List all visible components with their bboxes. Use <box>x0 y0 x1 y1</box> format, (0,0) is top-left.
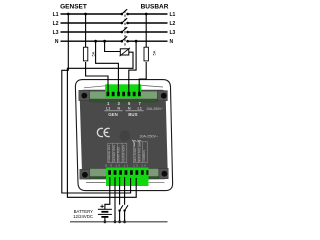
mains line L3 right segment <box>128 31 168 33</box>
svg-text:L1: L1 <box>137 106 141 110</box>
top-right screw <box>161 93 167 99</box>
svg-text:10A-250V~: 10A-250V~ <box>139 135 159 139</box>
svg-text:12/24VDC: 12/24VDC <box>73 214 93 219</box>
mains line L2 left segment <box>61 22 122 24</box>
flange inner lip hairline bottom <box>86 182 165 184</box>
fuse F1 <box>83 47 87 61</box>
input switch S2 contact <box>123 209 125 211</box>
svg-text:N: N <box>170 39 174 45</box>
mains line N right segment <box>128 40 168 42</box>
contactor K1 pole L2 contacts <box>121 22 124 25</box>
node: GEN L1 tap to changeover feed <box>67 13 70 16</box>
input switch S2 wire upper <box>124 177 126 205</box>
bottom green terminal block <box>106 168 149 187</box>
right terminal label grid <box>134 142 148 163</box>
contactor K1 pole L1 contacts <box>121 13 124 16</box>
svg-text:MAINS FAIL: MAINS FAIL <box>137 147 141 162</box>
bottom-right screw <box>162 171 168 177</box>
right grid vertical micro-text <box>133 147 146 162</box>
mains line L1 left segment <box>61 13 122 15</box>
contactor K1 pole L2 blade <box>122 18 127 23</box>
contactor K1 pole L3 contacts <box>121 31 124 34</box>
svg-text:5A: 5A <box>91 51 96 56</box>
ground bus line <box>70 221 168 223</box>
svg-text:L2: L2 <box>53 21 59 27</box>
BUS group bracket <box>125 110 143 112</box>
svg-text:ALARM HORN: ALARM HORN <box>121 145 125 162</box>
svg-text:BUSBAR: BUSBAR <box>141 4 169 11</box>
bottom-left screw pad <box>80 169 90 179</box>
contactor K1 mechanical link (dashed) <box>124 11 126 48</box>
controller module U1 (ATS controller) <box>75 80 172 191</box>
emblem circle <box>120 130 131 141</box>
input switch S2 blade <box>125 205 128 210</box>
flange inner lip hairline top <box>84 85 163 87</box>
svg-text:L3: L3 <box>53 30 59 36</box>
svg-text:25 26: 25 26 <box>133 163 147 167</box>
svg-text:10A-250V~: 10A-250V~ <box>146 107 163 111</box>
node: BUS L1 tap <box>145 13 148 16</box>
svg-text:N: N <box>128 106 131 110</box>
input switch S1 contact <box>118 209 120 211</box>
svg-text:L1: L1 <box>106 106 110 110</box>
node: coil feed tap on N <box>103 40 106 43</box>
svg-text:GEN START: GEN START <box>133 147 137 162</box>
wire: battery positive from module <box>105 177 110 209</box>
bottom-right screw pad <box>159 168 168 179</box>
svg-text:CHARGE FAIL: CHARGE FAIL <box>107 144 111 162</box>
wire: BUS N to module terminal 5 <box>129 41 136 94</box>
mains line L2 right segment <box>128 22 168 24</box>
contactor K1 pole L3 blade <box>122 27 127 32</box>
wire: module output straight to bus <box>114 177 116 222</box>
wire: N to coil left terminal <box>105 41 121 51</box>
node: GEN N tap <box>94 40 97 43</box>
node on bus <box>118 220 121 223</box>
contactor coil K1 diagonal <box>120 48 130 56</box>
GEN group bracket <box>104 110 122 112</box>
input switch S1 wire lower <box>119 211 121 222</box>
svg-text:BUS: BUS <box>128 112 137 117</box>
contactor coil K1 <box>120 49 129 55</box>
wire: GEN L1 down left side around to bottom terminal <box>62 14 131 193</box>
svg-text:GEN: GEN <box>108 112 118 117</box>
svg-text:GENSET: GENSET <box>60 4 87 11</box>
wire: battery negative to ground bus <box>104 217 106 222</box>
mains line L1 right segment <box>128 13 168 15</box>
bottom terminal strip (sage) <box>90 169 159 177</box>
wire: GEN N to module terminal 3 <box>96 41 119 94</box>
bottom terminal screw slots <box>108 170 148 175</box>
svg-text:GENSET RUN: GENSET RUN <box>112 145 116 162</box>
svg-text:5A: 5A <box>151 50 156 55</box>
wire: GEN L1 to fuse F1 <box>85 14 87 48</box>
mains line L3 left segment <box>61 31 122 33</box>
module outer flange <box>75 80 172 191</box>
svg-text:L1: L1 <box>53 12 59 18</box>
svg-text:N: N <box>117 106 120 110</box>
fuse F2 <box>144 47 148 61</box>
node on bus <box>114 220 117 223</box>
wire: coil right terminal around left side to bottom terminal <box>67 52 136 197</box>
relay contact icon <box>132 140 141 147</box>
svg-text:8 9 10 11: 8 9 10 11 <box>105 163 129 167</box>
svg-text:L1: L1 <box>170 12 176 18</box>
svg-text:COMMON: COMMON <box>142 150 146 162</box>
battery BT1 plus sign <box>100 205 104 209</box>
wire: fuse F1 to module terminal 1 <box>86 62 108 94</box>
terminal name labels L1 N N L1 <box>106 106 142 110</box>
wire: fuse F2 to module terminal 7 <box>139 62 146 94</box>
svg-text:N: N <box>55 39 59 45</box>
node: BUS N tap <box>135 40 138 43</box>
mains line N left segment <box>61 40 122 42</box>
wire: BUS L1 to fuse F2 <box>145 14 147 48</box>
top-left screw pad <box>79 90 90 100</box>
node on bus <box>123 220 126 223</box>
top terminal screw slots <box>107 92 141 96</box>
top strip lower dark band <box>89 99 157 103</box>
left grid vertical micro-text <box>107 144 125 162</box>
contactor K1 pole N blade <box>122 36 127 41</box>
left terminal label grid <box>108 143 127 163</box>
node: battery on bus <box>104 220 107 223</box>
bottom-left screw <box>82 172 88 178</box>
svg-text:L3: L3 <box>170 30 176 36</box>
battery BT1 plates <box>98 209 112 217</box>
input switch S2 wire lower <box>124 211 126 222</box>
node: GEN L1 tap to fuse <box>84 13 87 16</box>
top terminal strip (sage) <box>89 91 157 99</box>
top-right screw pad <box>158 91 168 101</box>
terminal number labels 1 3 5 7 <box>107 101 142 106</box>
input switch S1 wire upper <box>119 177 121 205</box>
svg-text:L2: L2 <box>170 21 176 27</box>
input switch S1 blade <box>120 205 123 210</box>
svg-text:START FUEL: START FUEL <box>117 146 121 162</box>
contactor K1 pole N contacts <box>121 40 124 43</box>
module dark face <box>80 90 168 179</box>
CE mark <box>97 128 109 136</box>
top-left screw <box>81 93 87 99</box>
contactor K1 pole L1 blade <box>122 9 127 14</box>
top green terminal block <box>105 84 141 98</box>
bottom strip lower dark band <box>90 177 159 180</box>
